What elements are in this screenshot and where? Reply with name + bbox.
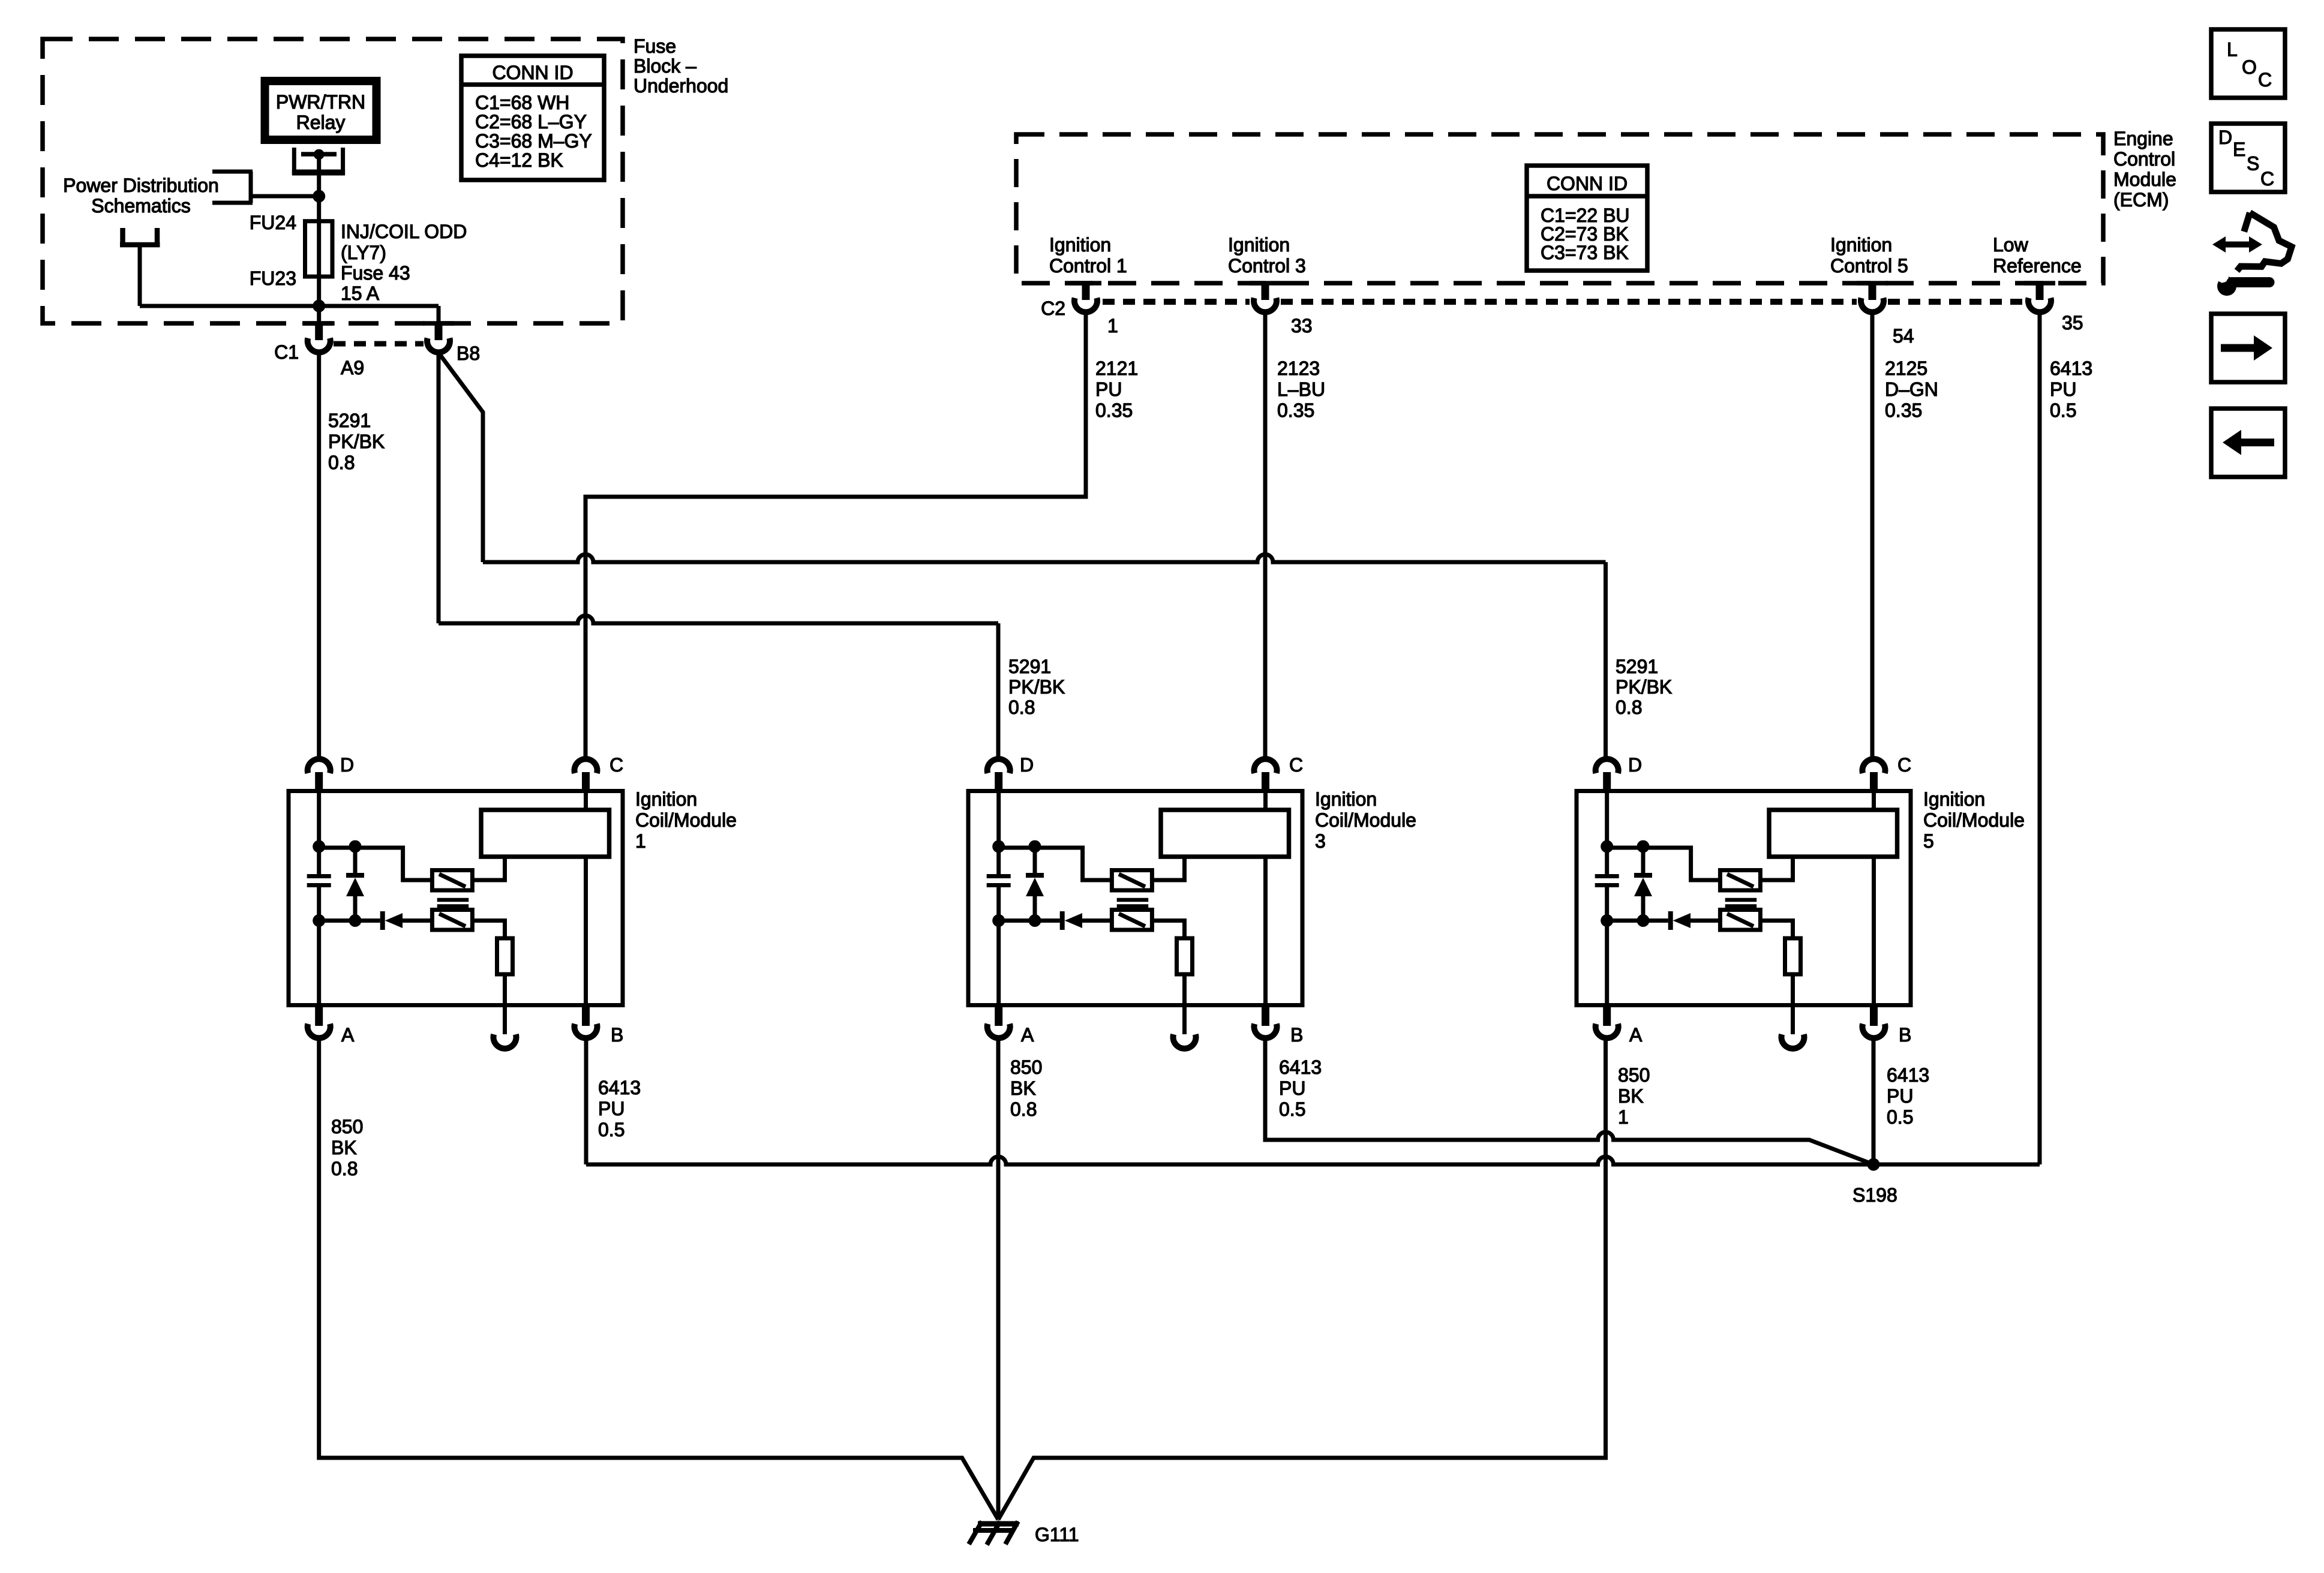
- svg-text:PK/BK: PK/BK: [328, 431, 385, 452]
- svg-text:(ECM): (ECM): [2113, 189, 2169, 211]
- svg-text:INJ/COIL ODD: INJ/COIL ODD: [341, 221, 467, 242]
- svg-text:A9: A9: [341, 357, 364, 379]
- svg-text:0.5: 0.5: [2050, 400, 2076, 421]
- svg-text:PK/BK: PK/BK: [1008, 676, 1065, 698]
- svg-text:1: 1: [1618, 1106, 1629, 1128]
- svg-text:Ignition: Ignition: [1830, 234, 1892, 256]
- svg-text:C: C: [2258, 69, 2272, 91]
- svg-text:L: L: [2227, 39, 2238, 61]
- svg-text:35: 35: [2062, 312, 2083, 334]
- svg-text:Engine: Engine: [2113, 128, 2173, 149]
- svg-text:PK/BK: PK/BK: [1616, 676, 1672, 698]
- svg-text:PU: PU: [1279, 1077, 1305, 1099]
- svg-text:0.8: 0.8: [328, 452, 355, 473]
- svg-text:5291: 5291: [1616, 656, 1658, 677]
- svg-text:850: 850: [1618, 1064, 1650, 1086]
- svg-text:PU: PU: [1095, 379, 1122, 400]
- svg-text:O: O: [2242, 56, 2257, 78]
- svg-text:Module: Module: [2113, 169, 2176, 190]
- svg-text:6413: 6413: [1279, 1056, 1322, 1078]
- svg-text:Ignition: Ignition: [1049, 234, 1111, 256]
- svg-text:L–BU: L–BU: [1277, 379, 1325, 400]
- svg-text:6413: 6413: [1887, 1064, 1929, 1086]
- svg-text:FU24: FU24: [250, 212, 296, 233]
- svg-text:S198: S198: [1852, 1184, 1897, 1206]
- svg-text:Ignition: Ignition: [1315, 788, 1377, 810]
- svg-text:Low: Low: [1993, 234, 2029, 256]
- svg-text:2125: 2125: [1885, 358, 1927, 379]
- svg-text:E: E: [2233, 139, 2245, 160]
- svg-text:C3=68 M–GY: C3=68 M–GY: [475, 130, 592, 152]
- svg-text:C2=68 L–GY: C2=68 L–GY: [475, 111, 587, 133]
- svg-text:BK: BK: [331, 1137, 357, 1158]
- svg-text:PU: PU: [1887, 1085, 1913, 1107]
- svg-text:Ignition: Ignition: [1923, 788, 1985, 810]
- svg-text:C2: C2: [1041, 298, 1065, 319]
- svg-text:Coil/Module: Coil/Module: [1923, 809, 2025, 831]
- svg-text:G111: G111: [1035, 1524, 1079, 1545]
- svg-text:0.35: 0.35: [1885, 400, 1922, 421]
- svg-text:C1: C1: [274, 341, 299, 363]
- svg-text:5291: 5291: [328, 410, 371, 431]
- svg-text:Relay: Relay: [296, 112, 346, 133]
- svg-text:2121: 2121: [1095, 358, 1138, 379]
- svg-text:54: 54: [1893, 325, 1914, 347]
- svg-text:PU: PU: [2050, 379, 2076, 400]
- svg-text:6413: 6413: [598, 1077, 641, 1098]
- svg-text:Control 1: Control 1: [1049, 255, 1127, 277]
- svg-text:CONN ID: CONN ID: [492, 62, 573, 83]
- svg-text:1: 1: [1107, 315, 1118, 337]
- svg-text:0.8: 0.8: [331, 1158, 358, 1179]
- svg-text:PWR/TRN: PWR/TRN: [276, 91, 365, 113]
- svg-text:Control 3: Control 3: [1228, 255, 1306, 277]
- svg-text:C3=73 BK: C3=73 BK: [1541, 242, 1629, 263]
- svg-text:C4=12 BK: C4=12 BK: [475, 149, 563, 171]
- svg-text:15 A: 15 A: [341, 283, 380, 304]
- svg-text:33: 33: [1291, 315, 1313, 337]
- svg-text:Coil/Module: Coil/Module: [635, 809, 737, 831]
- svg-text:Fuse 43: Fuse 43: [341, 262, 410, 284]
- svg-text:BK: BK: [1618, 1085, 1644, 1107]
- svg-text:Ignition: Ignition: [635, 788, 697, 810]
- svg-text:(LY7): (LY7): [341, 242, 386, 263]
- svg-text:FU23: FU23: [250, 268, 296, 289]
- svg-text:850: 850: [331, 1116, 363, 1137]
- svg-text:6413: 6413: [2050, 358, 2092, 379]
- svg-text:Fuse: Fuse: [633, 35, 676, 57]
- svg-text:Schematics: Schematics: [91, 195, 190, 217]
- svg-text:D–GN: D–GN: [1885, 379, 1938, 400]
- svg-text:0.35: 0.35: [1095, 400, 1133, 421]
- svg-text:Underhood: Underhood: [633, 75, 728, 97]
- svg-text:C1=68 WH: C1=68 WH: [475, 92, 569, 113]
- svg-text:0.8: 0.8: [1616, 697, 1642, 718]
- svg-text:Block –: Block –: [633, 55, 696, 77]
- svg-text:5291: 5291: [1008, 656, 1051, 677]
- svg-text:0.5: 0.5: [1279, 1098, 1305, 1120]
- svg-text:Ignition: Ignition: [1228, 234, 1290, 256]
- svg-text:Control 5: Control 5: [1830, 255, 1908, 277]
- svg-text:850: 850: [1010, 1056, 1042, 1078]
- svg-text:0.8: 0.8: [1010, 1098, 1037, 1120]
- svg-text:0.5: 0.5: [1887, 1106, 1913, 1128]
- svg-text:C: C: [2260, 168, 2274, 190]
- svg-text:Power Distribution: Power Distribution: [63, 175, 219, 196]
- svg-text:CONN ID: CONN ID: [1547, 173, 1628, 194]
- svg-text:Control: Control: [2113, 148, 2175, 170]
- svg-text:0.35: 0.35: [1277, 400, 1314, 421]
- svg-text:5: 5: [1923, 830, 1934, 852]
- svg-text:D: D: [2218, 127, 2232, 148]
- svg-text:1: 1: [635, 830, 646, 852]
- svg-text:Reference: Reference: [1993, 255, 2082, 277]
- svg-text:PU: PU: [598, 1098, 624, 1119]
- svg-text:2123: 2123: [1277, 358, 1320, 379]
- svg-text:BK: BK: [1010, 1077, 1036, 1099]
- svg-text:Coil/Module: Coil/Module: [1315, 809, 1416, 831]
- svg-text:0.8: 0.8: [1008, 697, 1035, 718]
- svg-text:3: 3: [1315, 830, 1326, 852]
- svg-text:S: S: [2247, 153, 2259, 175]
- svg-text:0.5: 0.5: [598, 1119, 624, 1140]
- svg-text:B8: B8: [457, 343, 480, 364]
